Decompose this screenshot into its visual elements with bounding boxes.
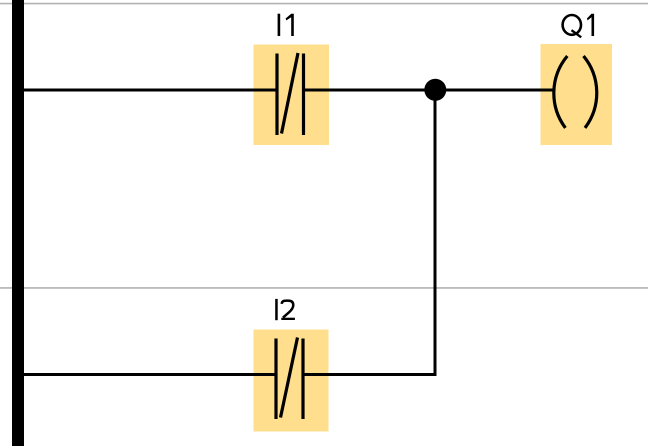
wire rung1 left segment (24, 89, 277, 92)
label I2 (275, 299, 295, 320)
highlight box I2 (254, 330, 329, 432)
wire rung2 left segment (24, 373, 276, 376)
contact I1 (normally closed) (277, 53, 304, 135)
highlight box Q1 (541, 44, 613, 145)
wire vertical branch (434, 90, 437, 376)
junction node (424, 79, 446, 101)
grid separator line top (0, 3, 648, 5)
contact I2 (normally closed) (276, 338, 303, 420)
grid separator line middle (0, 287, 648, 289)
coil Q1 (554, 56, 597, 128)
label I1 (278, 14, 294, 36)
left power rail (12, 0, 24, 446)
wire rung2 right segment (303, 373, 437, 376)
wire rung1 right segment (304, 89, 553, 92)
label Q1 (563, 14, 595, 38)
highlight box I1 (254, 45, 330, 146)
